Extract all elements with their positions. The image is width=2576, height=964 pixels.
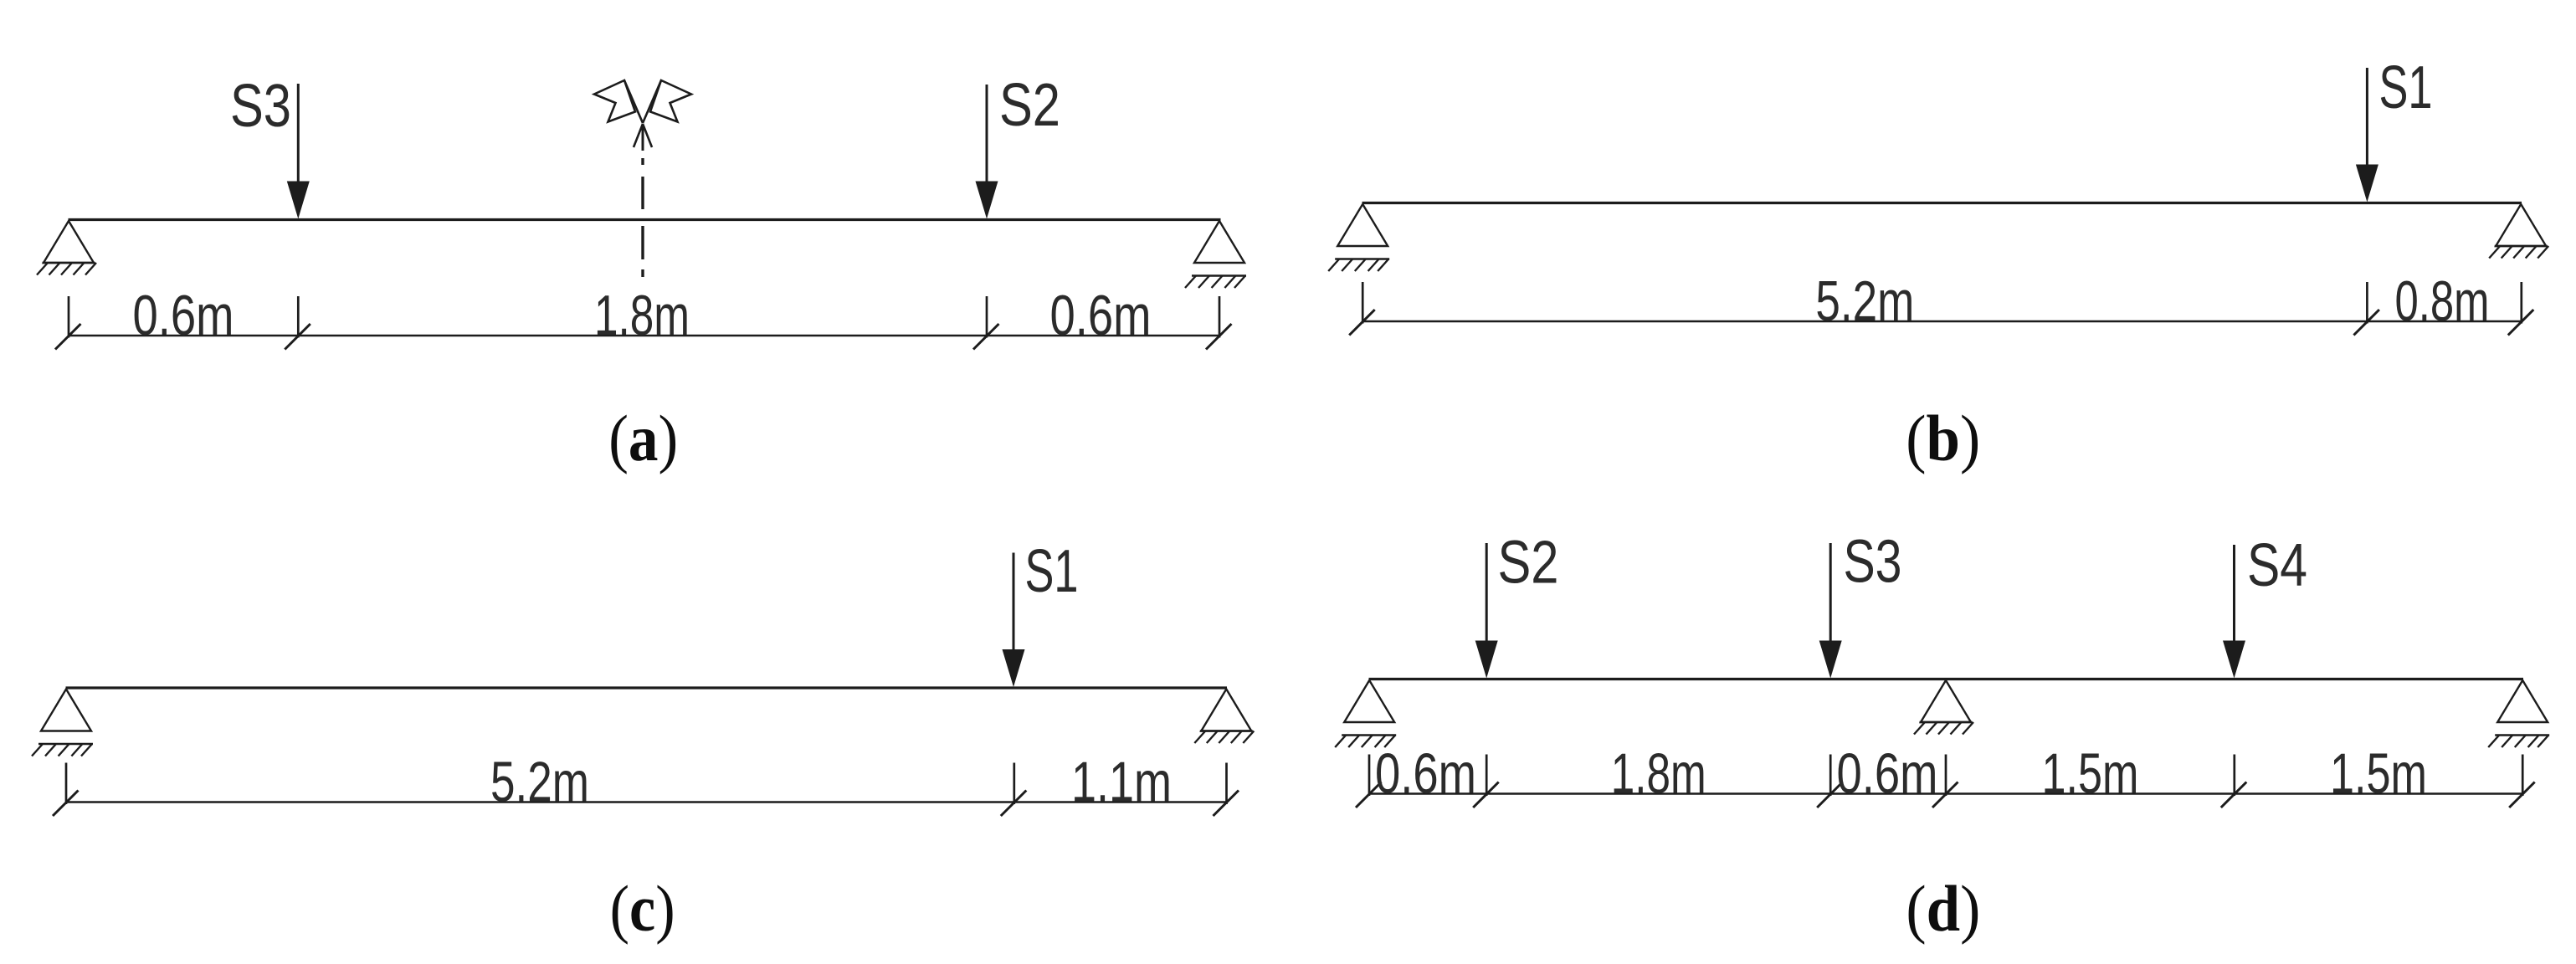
svg-text:S1: S1 (1025, 538, 1079, 605)
roller support (d) left (1335, 680, 1396, 747)
pin support (d) middle (1914, 680, 1973, 735)
load arrow S4 (d) (2223, 545, 2245, 679)
up arrow of centerline (a) (634, 124, 652, 147)
dimension tick (b) x=2828 (2353, 282, 2379, 336)
dimension tick (b) x=1628 (1349, 282, 1375, 336)
beam (b) (1362, 202, 2522, 204)
svg-text:5.2m: 5.2m (490, 751, 589, 814)
dimension tick (a) x=356 (285, 296, 310, 350)
left flag of symmetry symbol (a) (594, 80, 643, 123)
dimension tick (a) x=1179 (973, 296, 999, 350)
roller support (a) right (1185, 221, 1246, 288)
dimension tick (d) x=2670 (2221, 755, 2247, 808)
dimension line (a) (69, 335, 1219, 337)
load arrow S2 (d) (1475, 543, 1498, 679)
pin support (b) right (2489, 204, 2548, 259)
load arrow S3 (d) (1819, 543, 1842, 679)
svg-text:0.6m: 0.6m (1375, 742, 1476, 806)
symmetry centerline (a) (642, 124, 644, 277)
beam (a) (69, 218, 1221, 221)
svg-text:(d): (d) (1906, 872, 1980, 945)
svg-text:(c): (c) (610, 872, 675, 945)
dimension tick (d) x=2187 (1817, 755, 1843, 808)
svg-text:S2: S2 (1498, 530, 1559, 597)
dimension tick (d) x=1776 (1473, 755, 1499, 808)
svg-text:1.5m: 1.5m (2330, 742, 2427, 806)
dimension tick (a) x=1457 (1206, 296, 1232, 350)
svg-text:S2: S2 (999, 72, 1060, 139)
load arrow S3 (a) (287, 84, 310, 219)
svg-text:1.8m: 1.8m (1611, 742, 1706, 806)
dimension line (b) (1362, 320, 2522, 323)
svg-text:1.8m: 1.8m (594, 284, 690, 347)
svg-text:S3: S3 (230, 73, 291, 140)
svg-text:S4: S4 (2247, 532, 2307, 599)
svg-text:0.6m: 0.6m (133, 284, 234, 347)
roller support (c) left (32, 690, 93, 756)
right flag of symmetry symbol (a) (643, 80, 691, 123)
svg-text:0.8m: 0.8m (2395, 269, 2490, 333)
roller support (d) right (2488, 680, 2549, 747)
beam (d) (1369, 678, 2524, 680)
svg-text:S1: S1 (2379, 54, 2433, 121)
svg-text:0.6m: 0.6m (1050, 284, 1152, 347)
load arrow S1 (c) (1003, 553, 1025, 688)
roller support (b) left (1328, 204, 1389, 271)
dimension tick (b) x=3013 (2508, 282, 2534, 336)
dimension tick (c) x=1212 (1001, 763, 1027, 817)
svg-text:1.5m: 1.5m (2042, 742, 2139, 806)
dimension line (c) (66, 801, 1227, 803)
pin support (c) right (1194, 690, 1254, 744)
dimension tick (d) x=2325 (1932, 755, 1958, 808)
svg-text:5.2m: 5.2m (1815, 269, 1914, 333)
load arrow S2 (a) (976, 85, 998, 219)
dimension line (d) (1368, 792, 2522, 795)
dimension tick (d) x=1636 (1356, 755, 1382, 808)
pin support (a) left (37, 221, 96, 275)
svg-text:S3: S3 (1844, 529, 1902, 596)
dimension tick (d) x=3014 (2509, 755, 2535, 808)
svg-text:0.6m: 0.6m (1837, 742, 1938, 806)
svg-text:(a): (a) (608, 402, 678, 474)
svg-text:1.1m: 1.1m (1071, 751, 1172, 814)
svg-text:(b): (b) (1906, 402, 1980, 474)
beam (c) (66, 686, 1228, 689)
dimension tick (a) x=82 (55, 296, 81, 350)
dimension tick (c) x=1466 (1214, 763, 1239, 817)
load arrow S1 (b) (2356, 68, 2378, 203)
dimension tick (c) x=79 (53, 763, 79, 817)
